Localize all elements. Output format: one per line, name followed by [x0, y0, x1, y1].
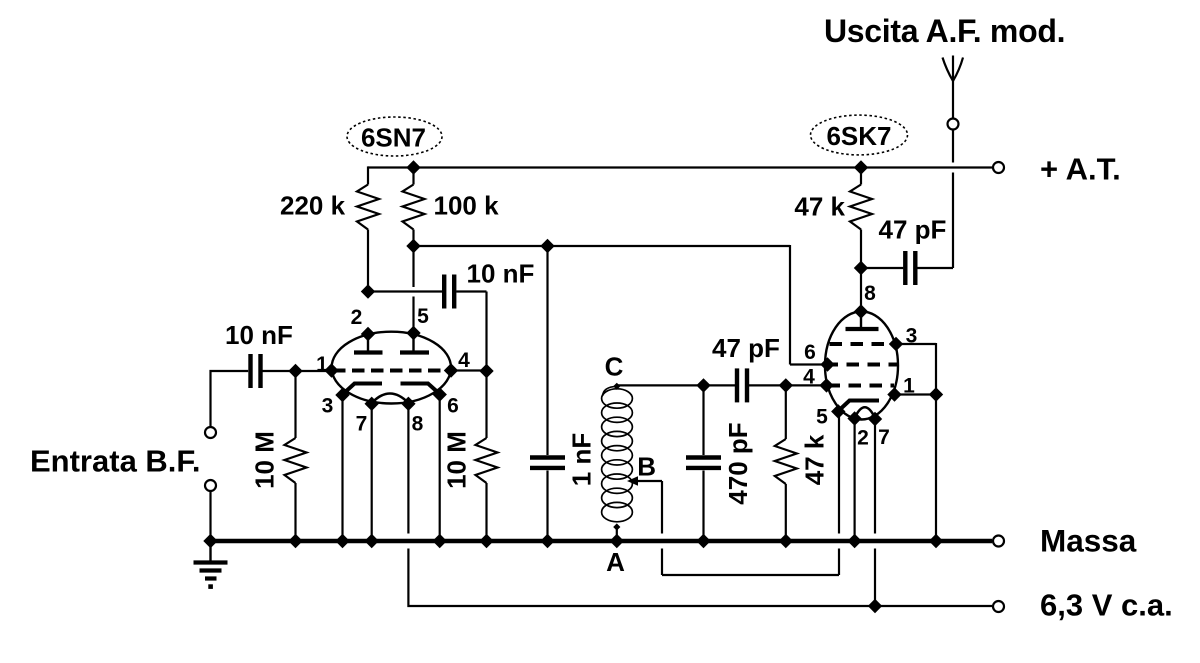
capacitor 10 nF input — [248, 354, 252, 388]
arrow tap B — [634, 480, 662, 482]
resistor 47 k mid — [775, 439, 797, 484]
wire grid crossover upper segment — [412, 246, 414, 287]
svg-text:Uscita A.F. mod.: Uscita A.F. mod. — [824, 13, 1065, 49]
node 47k mid top — [779, 378, 793, 392]
wire input terminal to 10nF — [211, 371, 249, 427]
wire plate node to pin 8 — [860, 268, 862, 312]
wire +A.T. rail — [368, 166, 992, 168]
wire pin 7 to bus — [371, 404, 373, 541]
svg-text:Entrata B.F.: Entrata B.F. — [30, 444, 201, 479]
terminal input cold — [205, 480, 216, 491]
svg-text:4: 4 — [803, 366, 815, 389]
node A on bus — [610, 534, 624, 548]
wire 47k mid bottom lead — [785, 484, 787, 541]
svg-text:+ A.T.: + A.T. — [1040, 152, 1121, 187]
node 6SN7 plate to 10nF coupling — [361, 284, 375, 298]
wire pin 2 to bus — [853, 419, 855, 542]
wire B return horizontal — [662, 574, 839, 576]
wire pins 3-1 vertical to bus — [935, 343, 937, 541]
node coil bottom — [613, 523, 620, 530]
svg-text:47 k: 47 k — [800, 434, 830, 485]
6SK7 heater arc — [855, 407, 875, 418]
svg-text:2: 2 — [351, 306, 363, 329]
wire 10nF right lead — [456, 290, 486, 292]
svg-text:A: A — [606, 547, 625, 577]
pin 7 dot — [365, 397, 379, 411]
pin 8 dot 6SK7 — [854, 304, 868, 318]
tube 6SN7 envelope — [332, 332, 451, 404]
pin 6 dot 6SK7 — [820, 357, 834, 371]
wire 47k mid top lead — [785, 385, 787, 439]
svg-text:4: 4 — [458, 349, 470, 372]
svg-text:1: 1 — [316, 353, 328, 376]
node bus 470pF — [696, 534, 710, 548]
node 470pF tap — [696, 378, 710, 392]
wire 47k bottom lead — [860, 230, 862, 269]
node bus pin 6 — [433, 534, 447, 548]
ellipse label 6SN7 — [347, 117, 442, 156]
ground bus Massa — [211, 539, 993, 543]
6SN7 cathode left — [343, 384, 383, 395]
svg-text:7: 7 — [356, 413, 368, 436]
wire B tap down lower segment — [661, 549, 663, 576]
node 1nF tap on screen feed — [540, 239, 554, 253]
svg-text:47 k: 47 k — [794, 192, 845, 222]
wire 10M left bottom lead — [294, 483, 296, 541]
svg-text:7: 7 — [878, 426, 890, 449]
wire 10nF to grid node — [263, 370, 332, 372]
resistor 47 k plate — [850, 185, 872, 230]
pin 4 dot — [444, 363, 458, 377]
resistor 220 k — [357, 185, 379, 230]
6SN7 plate left lead — [367, 334, 369, 351]
terminal input hot — [205, 427, 216, 438]
pin 1 dot — [324, 363, 338, 377]
wire B tap down upper segment — [661, 481, 663, 534]
capacitor 470 pF — [686, 455, 721, 459]
6SK7 grid 2 dashed — [826, 363, 898, 367]
pin 4 dot 6SK7 — [819, 378, 833, 392]
svg-text:6SN7: 6SN7 — [361, 123, 426, 153]
wire pin4 to grid node right — [451, 369, 487, 371]
6SN7 grid dashed line — [333, 369, 450, 373]
capacitor 47 pF feedback — [903, 251, 907, 285]
node pin1 tie — [929, 387, 943, 401]
pin 7 dot 6SK7 — [868, 412, 882, 426]
svg-text:1 nF: 1 nF — [567, 433, 597, 486]
resistor 10 M right — [476, 438, 498, 483]
terminal 6.3V — [993, 601, 1004, 612]
node bus pin 7 — [365, 534, 379, 548]
wire 47pF fb left lead — [861, 267, 903, 269]
terminal Massa — [993, 536, 1004, 547]
svg-text:5: 5 — [417, 305, 429, 328]
wire pin 5 upper segment — [838, 412, 840, 534]
wire input cold to ground bus — [209, 491, 211, 541]
capacitor 47 pF coupling mid — [735, 368, 739, 402]
svg-text:B: B — [637, 452, 656, 482]
pin 8 dot — [401, 397, 415, 411]
wire B return up to pin 5 lower — [838, 549, 840, 576]
terminal antenna — [948, 119, 959, 130]
wire screen feed right vertical — [789, 245, 791, 365]
tube 6SK7 envelope — [825, 312, 898, 420]
6SN7 plate right lead — [412, 333, 414, 351]
node bus pin 3 — [335, 534, 349, 548]
wire 47pF right lead to pin 4 — [749, 384, 827, 386]
6SK7 grid 3 dashed — [830, 342, 896, 346]
pin 3 dot 6SK7 — [889, 337, 903, 351]
node 47k top on rail — [854, 160, 868, 174]
wire pin 7 to heater line — [874, 549, 876, 607]
wire 100k top lead — [412, 168, 414, 185]
node bus 47k — [779, 534, 793, 548]
node heater junction — [868, 599, 882, 613]
terminal +A.T. — [993, 162, 1004, 173]
inductor L1 coil — [602, 389, 633, 522]
svg-text:470 pF: 470 pF — [723, 422, 753, 504]
pin 5 dot 6SK7 — [831, 404, 845, 418]
6SK7 cathode — [838, 401, 879, 412]
wire 47pF fb right lead — [917, 267, 953, 269]
node bus 1nF — [540, 534, 554, 548]
svg-text:6: 6 — [447, 395, 459, 418]
wire pin 3 to right rail — [896, 343, 936, 345]
node bus right rail — [929, 534, 943, 548]
wire 470pF top lead — [702, 385, 704, 455]
ground symbol — [209, 541, 211, 561]
6SN7 plate left bar — [354, 350, 383, 354]
ellipse label 6SK7 — [811, 115, 908, 155]
svg-text:47 pF: 47 pF — [712, 333, 780, 363]
pin 2 dot — [361, 327, 375, 341]
svg-text:10 nF: 10 nF — [467, 259, 535, 289]
node C coil top tap — [613, 383, 620, 390]
wire 470pF bottom lead — [702, 471, 704, 542]
svg-text:3: 3 — [322, 395, 334, 418]
wire 10M right bottom lead — [485, 483, 487, 541]
svg-text:C: C — [605, 351, 624, 381]
svg-text:10 M: 10 M — [442, 431, 472, 489]
resistor 10 M left — [285, 438, 307, 483]
wire plate node to 10nF — [368, 290, 442, 292]
6SK7 plate lead — [860, 313, 862, 327]
pin 1 dot 6SK7 — [887, 387, 901, 401]
wire screen feed horizontal — [414, 245, 791, 247]
wire coil top to 47pF node — [617, 384, 735, 386]
wire 220k top lead — [367, 166, 369, 184]
node bus pin 2 — [847, 534, 861, 548]
capacitor 10 nF coupling upper — [442, 275, 446, 309]
wire pin 6 to bus — [439, 395, 441, 542]
wire pin 1 to right rail — [895, 393, 937, 395]
resistor 100 k — [403, 185, 425, 230]
node bus 10M right — [479, 534, 493, 548]
pin 5 dot — [406, 326, 420, 340]
wire 100k bottom lead — [412, 230, 414, 247]
svg-text:8: 8 — [412, 413, 424, 436]
svg-text:6: 6 — [804, 341, 816, 364]
wire 1nF top lead — [546, 246, 548, 455]
node bus 10M left — [288, 534, 302, 548]
node bus input — [203, 534, 217, 548]
wire pin 3 to bus — [341, 395, 343, 541]
wire pin 8 lower segment to heater line — [408, 549, 992, 607]
svg-text:Massa: Massa — [1040, 523, 1137, 559]
6SK7 plate bar — [846, 327, 879, 331]
wire 10M left top lead — [294, 371, 296, 438]
svg-text:220 k: 220 k — [280, 191, 346, 221]
wire 1nF bottom lead — [546, 471, 548, 542]
svg-text:5: 5 — [816, 406, 828, 429]
6SN7 heater arc — [372, 394, 409, 404]
wire 10nF down to grid node — [485, 292, 487, 439]
6SN7 cathode right — [401, 384, 440, 395]
capacitor 1 nF — [530, 455, 565, 459]
pin 3 dot — [335, 388, 349, 402]
wire pin 7 upper segment — [874, 419, 876, 534]
svg-text:6SK7: 6SK7 — [826, 121, 891, 151]
wire screen feed into pin 6 — [790, 363, 828, 365]
svg-text:10 M: 10 M — [250, 431, 280, 489]
node 100k bottom / screen feed — [406, 239, 420, 253]
wire pin 8 upper segment — [407, 404, 409, 534]
wire antenna upper segment — [952, 80, 954, 119]
svg-text:2: 2 — [857, 427, 869, 450]
antenna symbol — [943, 58, 964, 82]
wire coil top hook — [603, 386, 617, 396]
svg-text:6,3 V c.a.: 6,3 V c.a. — [1040, 588, 1173, 623]
svg-text:10 nF: 10 nF — [225, 320, 293, 350]
wire grid crossover lower segment — [412, 297, 414, 334]
6SN7 plate right bar — [400, 350, 429, 354]
pin 2 dot 6SK7 — [847, 411, 861, 425]
wire antenna mid segment — [952, 130, 954, 163]
svg-text:8: 8 — [864, 282, 876, 305]
wire 47k top lead — [860, 168, 862, 185]
node grid right / 10M right — [479, 364, 493, 378]
wire 220k bottom lead — [367, 230, 369, 292]
6SK7 grid 1 dashed — [828, 384, 895, 388]
svg-text:47 pF: 47 pF — [879, 215, 947, 245]
svg-text:100 k: 100 k — [434, 191, 500, 221]
node plate / 47pF feedback — [854, 261, 868, 275]
wire antenna lower segment — [952, 173, 954, 269]
node top of 220k/100k divider — [406, 160, 420, 174]
node grid / 10M left — [288, 364, 302, 378]
pin 6 dot — [433, 387, 447, 401]
wire coil bottom to bus — [616, 527, 618, 541]
